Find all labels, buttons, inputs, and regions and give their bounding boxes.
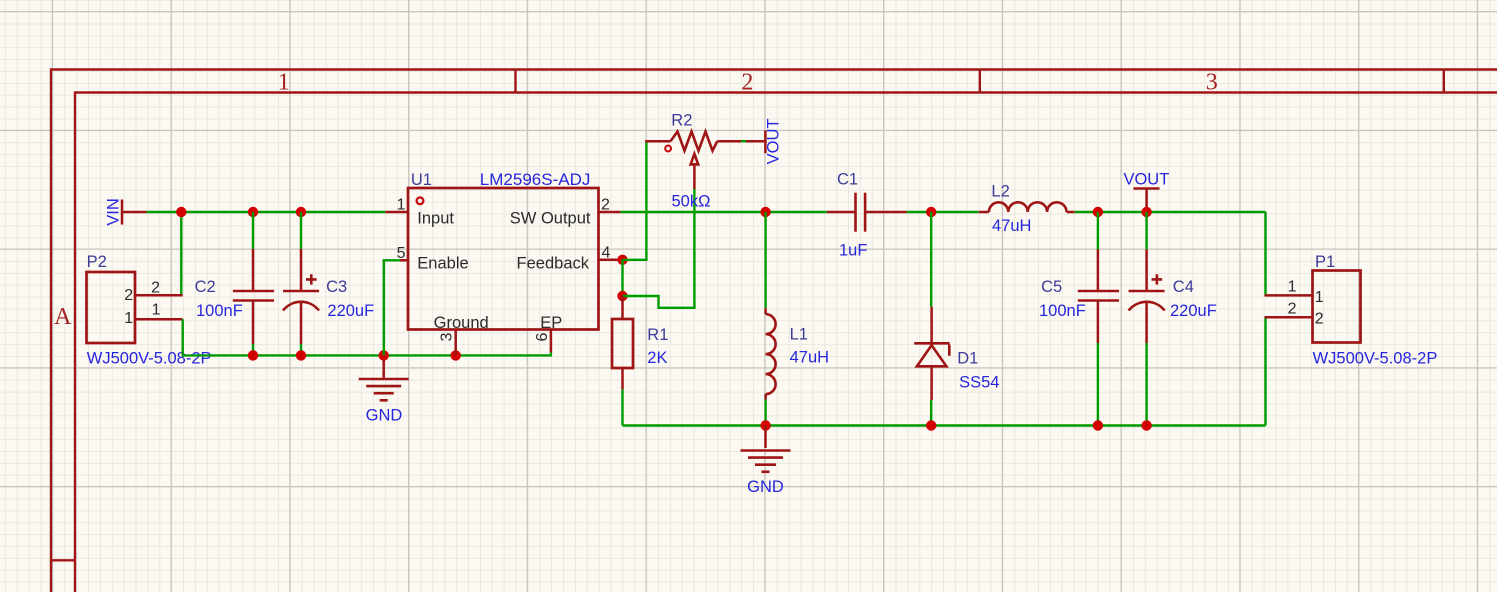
svg-text:220uF: 220uF <box>1170 302 1217 320</box>
capacitor C2 <box>233 249 274 344</box>
U1 pin 6 stub <box>550 330 553 353</box>
wire C5 bottom <box>1097 343 1099 426</box>
svg-text:1: 1 <box>1288 279 1297 296</box>
node junction C5 top <box>1093 207 1103 217</box>
wire R2 to VOUT flag <box>741 140 746 142</box>
svg-text:Input: Input <box>417 210 454 228</box>
svg-text:47uH: 47uH <box>992 217 1031 235</box>
svg-text:2: 2 <box>741 70 753 96</box>
U1 pin 2 stub <box>599 211 621 214</box>
wire P2 pin1 to bottom rail <box>181 319 183 355</box>
node junction GND rail <box>379 350 389 360</box>
wire P2 pin2 riser <box>180 212 182 295</box>
wire C2 bottom <box>252 344 254 355</box>
node junction SW/L1 <box>760 207 770 217</box>
svg-text:A: A <box>54 304 72 330</box>
svg-text:EP: EP <box>540 314 562 332</box>
ground symbol GND (center) <box>741 426 791 472</box>
svg-text:100nF: 100nF <box>196 302 243 320</box>
wire C3 bottom <box>300 344 302 355</box>
capacitor C1 <box>827 193 907 232</box>
node junction switch node/D1 <box>926 207 936 217</box>
wire P1 pin1 drop <box>1264 212 1266 295</box>
wire U1 pin2 output <box>620 211 827 213</box>
svg-text:2: 2 <box>601 197 610 214</box>
svg-text:SW Output: SW Output <box>510 210 591 228</box>
wire R1 bottom <box>621 389 623 425</box>
capacitor C3 (polarized) <box>283 249 319 344</box>
wire C1 to L2 <box>907 211 979 213</box>
wire C3 top <box>300 212 302 249</box>
node junction VIN/P2 <box>176 207 186 217</box>
svg-text:P2: P2 <box>87 253 107 271</box>
resistor R2 (potentiometer) <box>645 132 741 190</box>
U1 pin 4 stub <box>599 259 623 262</box>
op-amp U1 LM2596S-ADJ body <box>408 188 599 330</box>
svg-text:220uF: 220uF <box>327 302 374 320</box>
node junction bottom C2 <box>248 350 258 360</box>
node junction C5 bottom <box>1093 420 1103 430</box>
svg-text:GND: GND <box>747 478 784 496</box>
U1 pin 3 stub <box>454 330 457 356</box>
node junction U1 pin3 <box>451 350 461 360</box>
svg-text:6: 6 <box>534 332 551 341</box>
svg-text:C2: C2 <box>195 278 216 296</box>
wire C2 top <box>252 212 254 249</box>
diode D1 (schottky) <box>914 307 949 400</box>
svg-text:Enable: Enable <box>417 255 468 273</box>
wire L1 top <box>764 212 766 308</box>
svg-text:C3: C3 <box>326 278 347 296</box>
wire L1 bottom <box>764 400 766 426</box>
wire pin4 to R1 node <box>621 260 623 296</box>
svg-text:L1: L1 <box>790 325 808 343</box>
resistor R1 <box>612 296 633 389</box>
svg-text:P1: P1 <box>1315 253 1335 271</box>
ground symbol GND (left) <box>359 355 409 400</box>
svg-text:WJ500V-5.08-2P: WJ500V-5.08-2P <box>87 349 212 367</box>
node junction VIN/C2 <box>248 207 258 217</box>
wire U1 pin5 to ground rail <box>384 260 400 355</box>
svg-text:2: 2 <box>124 287 133 304</box>
U1 pin 5 stub <box>400 259 408 262</box>
svg-text:50kΩ: 50kΩ <box>672 192 711 210</box>
node junction VIN/C3 <box>296 207 306 217</box>
svg-text:1uF: 1uF <box>839 241 867 259</box>
svg-text:C1: C1 <box>837 171 858 189</box>
svg-text:LM2596S-ADJ: LM2596S-ADJ <box>480 170 591 189</box>
svg-text:1: 1 <box>152 302 161 319</box>
svg-text:100nF: 100nF <box>1039 302 1086 320</box>
wire bottom main rail <box>623 424 1266 426</box>
wire pin4 to R2 left <box>623 141 647 260</box>
svg-text:GND: GND <box>366 407 403 425</box>
net flag VOUT (output) <box>1123 171 1169 208</box>
svg-text:C4: C4 <box>1173 278 1194 296</box>
U1 pin 1 stub <box>385 211 408 214</box>
wire C4 top <box>1145 212 1147 249</box>
svg-text:C5: C5 <box>1041 278 1062 296</box>
svg-text:3: 3 <box>439 332 456 341</box>
svg-text:D1: D1 <box>957 350 978 368</box>
wire D1 bottom <box>930 400 932 426</box>
svg-text:2: 2 <box>1315 311 1324 328</box>
svg-text:Ground: Ground <box>434 314 489 332</box>
svg-text:VIN: VIN <box>105 198 123 226</box>
node junction pin4 <box>617 255 627 265</box>
wire bottom-left rail <box>182 352 551 355</box>
svg-text:1: 1 <box>397 197 406 214</box>
svg-text:2: 2 <box>1288 301 1297 318</box>
svg-text:1: 1 <box>124 310 133 327</box>
svg-text:WJ500V-5.08-2P: WJ500V-5.08-2P <box>1313 349 1438 367</box>
node junction bottom C3 <box>296 350 306 360</box>
svg-text:VOUT: VOUT <box>1123 171 1169 189</box>
wire VIN to U1 pin1 <box>147 211 386 213</box>
node junction D1/GND rail <box>926 420 936 430</box>
svg-text:VOUT: VOUT <box>765 118 783 164</box>
wire C5 top <box>1097 212 1099 249</box>
svg-text:3: 3 <box>1206 70 1218 96</box>
svg-text:2: 2 <box>151 280 160 297</box>
connector P1 <box>1265 271 1361 343</box>
inductor L1 <box>766 308 776 399</box>
svg-text:Feedback: Feedback <box>517 255 590 273</box>
capacitor C4 (polarized) <box>1129 249 1165 343</box>
capacitor C5 <box>1078 249 1119 343</box>
svg-text:U1: U1 <box>411 171 432 189</box>
connector P2 <box>87 272 183 343</box>
net flag VOUT (at R2) <box>746 118 783 164</box>
svg-text:47uH: 47uH <box>790 348 829 366</box>
wire D1 top <box>930 212 932 307</box>
svg-text:R1: R1 <box>647 326 668 344</box>
wire L2 to P1 <box>1075 211 1266 213</box>
wire P1 pin2 riser <box>1264 317 1266 425</box>
node junction C4/VOUT top <box>1141 207 1151 217</box>
node junction L1/GND rail <box>760 420 770 430</box>
svg-text:2K: 2K <box>647 349 667 367</box>
wire C4 bottom <box>1145 343 1147 426</box>
svg-text:4: 4 <box>602 245 611 262</box>
node junction R1 top <box>617 291 627 301</box>
inductor L2 <box>979 202 1075 212</box>
node junction C4 bottom <box>1141 420 1151 430</box>
svg-text:1: 1 <box>1315 289 1324 306</box>
svg-text:SS54: SS54 <box>959 374 999 392</box>
svg-text:L2: L2 <box>991 183 1009 201</box>
wire feedback jog to R2 wiper <box>623 189 695 308</box>
net flag VIN <box>105 198 147 226</box>
svg-text:R2: R2 <box>671 112 692 130</box>
svg-text:1: 1 <box>278 70 290 96</box>
